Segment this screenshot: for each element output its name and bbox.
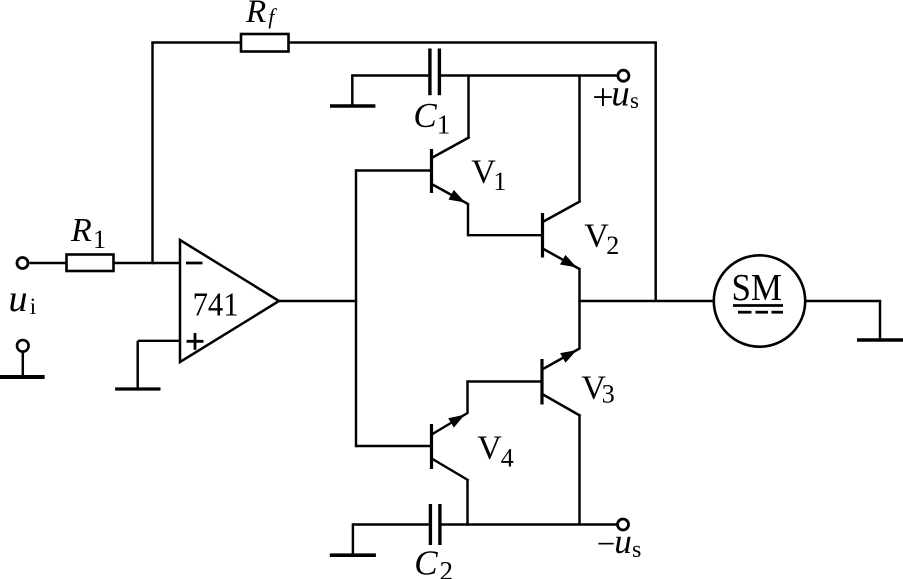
svg-text:i: i xyxy=(30,294,36,319)
wire noninverting ground stub xyxy=(136,341,138,388)
wire noninverting input xyxy=(138,340,180,342)
label +us xyxy=(592,74,639,119)
input terminal u_i xyxy=(17,258,28,269)
wire V4 base xyxy=(356,445,430,447)
svg-text:u: u xyxy=(614,522,632,561)
svg-text:R: R xyxy=(245,0,266,30)
svg-text:C: C xyxy=(413,96,437,135)
ground (op-amp +) xyxy=(115,387,160,390)
wire lower terminal stub xyxy=(22,352,24,376)
svg-text:2: 2 xyxy=(606,231,619,260)
wire top rail right xyxy=(441,74,617,76)
svg-text:f: f xyxy=(268,4,277,29)
svg-text:s: s xyxy=(630,88,639,113)
svg-text:2: 2 xyxy=(440,556,454,579)
ground (SM) xyxy=(857,338,903,341)
wire bottom rail right xyxy=(442,523,617,525)
resistor R1 xyxy=(67,255,114,272)
svg-text:SM: SM xyxy=(732,267,783,309)
transistor V1 emitter xyxy=(433,185,469,237)
svg-text:s: s xyxy=(632,537,641,563)
label -us xyxy=(597,522,642,563)
svg-text:4: 4 xyxy=(501,444,514,473)
capacitor C1 xyxy=(430,49,440,96)
wire op-amp output xyxy=(279,300,357,302)
wire feedback right vertical xyxy=(654,43,656,302)
svg-text:−: − xyxy=(597,527,616,563)
wire right ground stub xyxy=(879,301,881,340)
label 741 xyxy=(193,286,239,323)
wire Rf left xyxy=(151,41,241,43)
label SM xyxy=(732,267,783,309)
ground (C2) xyxy=(330,553,376,557)
svg-text:1: 1 xyxy=(93,225,106,254)
transistor V1 collector xyxy=(433,76,470,158)
wire top rail left xyxy=(352,74,428,76)
transistor V3 collector down xyxy=(543,395,581,525)
wire C1 ground stub xyxy=(351,74,353,104)
wire Rf right xyxy=(289,41,657,43)
svg-text:u: u xyxy=(611,74,630,115)
svg-text:3: 3 xyxy=(602,379,615,408)
motor SM dashed line xyxy=(738,311,783,314)
label V1 xyxy=(471,154,506,197)
transistor V4 base bar xyxy=(430,424,433,469)
resistor Rf xyxy=(241,34,289,52)
label C2 xyxy=(414,544,453,579)
svg-text:C: C xyxy=(414,544,438,579)
ground (C1) xyxy=(330,104,375,108)
transistor V4 emitter up xyxy=(433,380,468,434)
label u_i xyxy=(9,278,37,320)
wire SM to ground xyxy=(805,300,881,302)
label R1 xyxy=(70,212,106,254)
label C1 xyxy=(413,96,450,140)
ground (input) xyxy=(0,375,45,379)
op-amp 741 xyxy=(180,240,279,362)
label V3 xyxy=(581,369,614,408)
wire R1 to op-amp xyxy=(114,262,181,264)
svg-text:741: 741 xyxy=(193,286,239,323)
lower input terminal xyxy=(17,340,29,352)
svg-text:R: R xyxy=(70,212,92,249)
label V2 xyxy=(584,218,619,260)
capacitor C2 xyxy=(430,504,440,545)
svg-text:1: 1 xyxy=(493,167,506,196)
transistor V2 emitter xyxy=(544,249,580,302)
transistor V3 emitter up xyxy=(543,300,580,369)
transistor V1 base bar xyxy=(430,149,433,193)
motor SM underline xyxy=(733,304,783,307)
op-amp minus sign xyxy=(186,262,203,265)
label Rf xyxy=(245,0,277,30)
transistor V3 base bar xyxy=(540,359,543,405)
wire C2 ground stub xyxy=(352,523,354,553)
wire input to R1 xyxy=(30,262,67,264)
svg-text:V: V xyxy=(477,429,502,466)
svg-text:1: 1 xyxy=(437,110,451,140)
op-amp plus sign xyxy=(187,333,204,350)
wire V3 base xyxy=(468,380,542,382)
terminal -us xyxy=(618,519,629,530)
wire V1 base xyxy=(356,169,430,171)
wire base branch vertical xyxy=(355,169,357,447)
motor SM xyxy=(714,255,805,346)
transistor V2 collector xyxy=(544,76,581,222)
transistor V2 base bar xyxy=(541,213,544,258)
label V4 xyxy=(477,429,514,472)
wire feedback left vertical xyxy=(151,43,153,265)
wire bottom rail left xyxy=(353,523,429,525)
transistor V4 collector down xyxy=(433,459,469,526)
terminal +us xyxy=(618,70,629,81)
wire V1 emitter to V2 base xyxy=(468,234,541,236)
wire output to SM xyxy=(580,300,714,302)
svg-text:u: u xyxy=(9,278,28,320)
